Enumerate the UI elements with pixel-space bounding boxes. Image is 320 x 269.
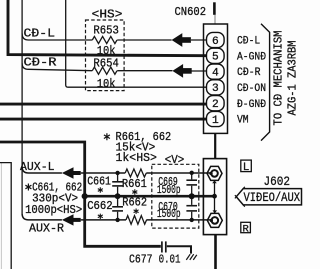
svg-text:A-GNĐ: A-GNĐ xyxy=(237,51,266,63)
wire thick A-GND L from top-left to pin5 xyxy=(8,0,207,56)
connector J602 box xyxy=(203,159,226,235)
svg-text:2: 2 xyxy=(212,99,219,111)
link J602 to bottom edge xyxy=(214,235,217,269)
node: jack sleeve on ground bus xyxy=(212,194,217,199)
svg-text:VIĐEO/AUX: VIĐEO/AUX xyxy=(244,191,301,205)
pin 3 xyxy=(207,80,225,95)
svg-text:<V>: <V> xyxy=(165,153,185,167)
asterisk R661 xyxy=(132,189,137,194)
svg-text:1000p<HS>: 1000p<HS> xyxy=(25,204,82,217)
VIDEO/AUX tag xyxy=(236,189,301,205)
asterisk R662 xyxy=(134,209,139,214)
pin 6 xyxy=(207,32,225,47)
capacitor C677 plates xyxy=(162,241,166,252)
svg-text:4: 4 xyxy=(212,67,219,79)
resistor R653 zigzag xyxy=(92,36,117,43)
svg-text:TO CĐ MECHANISM: TO CĐ MECHANISM xyxy=(272,31,286,126)
svg-text:1500p: 1500p xyxy=(157,208,181,221)
junction dots xyxy=(82,171,217,222)
box label R xyxy=(241,222,251,232)
svg-text:Đ-GNĐ: Đ-GNĐ xyxy=(237,99,266,111)
dashed box V around C669 C670 xyxy=(152,164,199,228)
svg-text:10k: 10k xyxy=(97,77,116,91)
left partial block xyxy=(0,163,11,269)
node: C669/C670 on ground bus xyxy=(189,193,195,199)
svg-text:C661: C661 xyxy=(87,175,111,188)
svg-text:R661: R661 xyxy=(122,178,147,191)
svg-text:CĐ-ON: CĐ-ON xyxy=(237,83,266,95)
svg-text:<HS>: <HS> xyxy=(92,7,123,21)
wire C677 tail, down, to chassis ground xyxy=(167,246,191,253)
dashed box HS around R653 R654 xyxy=(86,20,125,91)
svg-text:C662: C662 xyxy=(87,200,113,213)
asterisk star C661,662 note xyxy=(25,184,31,191)
resistor R661 zigzag xyxy=(125,169,146,177)
arrow on CD-R wire xyxy=(172,64,191,78)
svg-text:CĐ-L: CĐ-L xyxy=(24,27,56,41)
svg-text:R662: R662 xyxy=(122,196,147,209)
svg-text:C677: C677 xyxy=(129,253,153,267)
jack R (bottom) hexagon xyxy=(207,213,222,227)
resistor R662 zigzag xyxy=(126,216,147,225)
capacitor C669 xyxy=(186,173,197,196)
svg-text:1500p: 1500p xyxy=(157,184,181,197)
svg-text:CĐ-L: CĐ-L xyxy=(237,36,260,48)
capacitor C662 xyxy=(112,196,123,220)
svg-text:0.01: 0.01 xyxy=(159,253,181,267)
svg-text:R654: R654 xyxy=(93,56,119,70)
svg-text:AUX-R: AUX-R xyxy=(29,222,65,236)
wire AUX-R branch curve and run to jack xyxy=(22,213,211,220)
wire thick VM from left edge to pin1 xyxy=(0,118,207,121)
arrow on AUX-L wire xyxy=(62,167,81,178)
svg-text:AZG-1 ZA3RBM: AZG-1 ZA3RBM xyxy=(286,41,300,116)
svg-text:R653: R653 xyxy=(93,23,119,37)
capacitor C670 xyxy=(186,196,197,220)
wire CD-L branch curve and run xyxy=(22,34,207,41)
svg-text:5: 5 xyxy=(212,52,219,64)
svg-text:AUX-L: AUX-L xyxy=(20,160,55,174)
node: C669 top on AUX-L xyxy=(190,171,194,175)
svg-text:1k<HS>: 1k<HS> xyxy=(116,151,157,165)
asterisk C662 xyxy=(98,214,103,219)
arrow on AUX-R wire xyxy=(62,214,81,225)
wire CD-ON from top edge, corner, to pin3 xyxy=(66,0,207,87)
chassis ground for C677 xyxy=(186,254,197,260)
wire vertical signal bus at x=22 xyxy=(21,0,23,213)
resistor R654 zigzag xyxy=(92,67,117,74)
asterisk star R661,662 note xyxy=(104,133,110,140)
link CN602 to J602 xyxy=(214,133,216,158)
capacitor C661 xyxy=(112,173,123,196)
wire thick D-GND from left edge to pin2 xyxy=(0,103,207,106)
asterisk C661 xyxy=(98,187,103,192)
svg-text:CĐ-R: CĐ-R xyxy=(24,55,58,69)
connector CN602 box xyxy=(204,24,228,133)
svg-text:3: 3 xyxy=(212,83,219,95)
svg-text:J602: J602 xyxy=(264,174,291,189)
wire AUX-L branch curve and run to jack xyxy=(22,167,210,173)
arrow on CD-L wire xyxy=(172,33,191,47)
svg-text:CĐ-R: CĐ-R xyxy=(237,67,261,79)
node: C661 top on AUX-L xyxy=(115,171,119,175)
svg-text:R: R xyxy=(242,223,249,235)
tick above CN602 xyxy=(213,2,216,15)
svg-text:1: 1 xyxy=(212,115,219,127)
bracket TO CD MECHANISM xyxy=(261,24,270,141)
jack L (top) hexagon xyxy=(207,166,222,180)
wire thick AUX bus: left edge, corner down, bottom run to C677 xyxy=(0,142,161,246)
svg-text:6: 6 xyxy=(212,36,219,48)
wire thick ground bus between AUX-L and AUX-R xyxy=(85,195,215,198)
node: C670 bottom on AUX-R xyxy=(190,218,194,222)
pin 4 xyxy=(207,64,225,79)
svg-text:L: L xyxy=(243,162,250,174)
box label L xyxy=(241,160,252,172)
node: ground bus / AUX thick bus xyxy=(82,193,88,199)
svg-text:CN602: CN602 xyxy=(175,5,207,19)
jack link line xyxy=(214,180,216,213)
pin 2 xyxy=(207,96,225,111)
node: C661/C662 on ground bus xyxy=(115,193,121,199)
pin 5 xyxy=(207,48,225,63)
pin 1 xyxy=(207,111,225,126)
node: C662 bottom on AUX-R xyxy=(115,218,119,222)
wire CD-R branch curve and run xyxy=(22,63,207,71)
svg-text:VM: VM xyxy=(237,115,249,127)
